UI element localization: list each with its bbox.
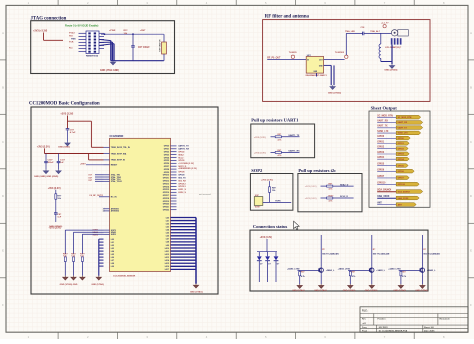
- svg-text:Rst: Rst: [69, 47, 73, 50]
- svg-text:TOP5: TOP5: [275, 201, 281, 203]
- svg-text:LG17: LG17: [165, 269, 170, 271]
- i2c pullup box: [298, 174, 362, 212]
- svg-text:UART1_RX: UART1_RX: [178, 148, 189, 151]
- svg-text:LG13: LG13: [165, 257, 170, 259]
- svg-text:GPIO6: GPIO6: [377, 169, 385, 171]
- svg-text:GND (GND) GND (GND): GND (GND) GND (GND): [34, 176, 58, 178]
- svg-text:LG14: LG14: [165, 259, 170, 262]
- svg-text:UAB_XXXX: UAB_XXXX: [377, 195, 390, 198]
- ground below C9: [65, 142, 70, 146]
- svg-text:GPIO13: GPIO13: [178, 186, 186, 188]
- svg-text:LG8: LG8: [166, 242, 170, 244]
- svg-text:LG0: LG0: [166, 217, 170, 219]
- svg-text:+RST: +RST: [80, 163, 86, 165]
- svg-text:+3AN3_L: +3AN3_L: [376, 269, 385, 272]
- svg-text:GPIO10: GPIO10: [163, 175, 170, 177]
- svg-text:GPIO0: GPIO0: [377, 136, 385, 138]
- ground right bus: [193, 284, 198, 288]
- svg-text:E: E: [470, 249, 472, 253]
- svg-text:RESET: RESET: [111, 165, 118, 167]
- svg-text:LG7: LG7: [166, 239, 170, 241]
- svg-text:Freq:: Freq:: [362, 327, 367, 329]
- svg-text:+L1_Y?: +L1_Y?: [381, 22, 389, 24]
- filter U6 bottom pins to ground: [324, 64, 332, 66]
- svg-text:CC1200MOD: CC1200MOD: [110, 136, 124, 138]
- svg-text:GPIO1: GPIO1: [377, 141, 385, 143]
- svg-text:TCK: TCK: [69, 42, 74, 44]
- svg-text:+3.3VSNS (3.3V): +3.3VSNS (3.3V): [178, 163, 194, 165]
- svg-text:GPIO4: GPIO4: [164, 156, 170, 159]
- svg-text:+3V3 (3.3V): +3V3 (3.3V): [60, 113, 73, 116]
- svg-text:GND (1/TAG): GND (1/TAG): [365, 289, 378, 292]
- svg-text:LG10: LG10: [165, 248, 170, 250]
- antenna connector P1: [391, 30, 397, 36]
- svg-text:ANT/DE2: ANT/DE2: [111, 210, 119, 213]
- svg-text:GPIO9: GPIO9: [178, 175, 185, 177]
- svg-text:GPIO5: GPIO5: [398, 165, 405, 167]
- wire +3V3 to connector (dark red): [43, 33, 45, 41]
- svg-text:GPIO12: GPIO12: [163, 181, 170, 183]
- svg-text:GPIO2: GPIO2: [377, 147, 385, 149]
- svg-text:LG9: LG9: [166, 245, 170, 247]
- svg-text:GND (1/TAG): GND (1/TAG): [292, 289, 305, 292]
- svg-text:RF_P0_OUT: RF_P0_OUT: [267, 57, 281, 59]
- svg-text:GND (1/TAG): GND (1/TAG): [393, 289, 406, 292]
- svg-text:TRUE_IN RF_IN: TRUE_IN RF_IN: [111, 160, 126, 162]
- LED at x=267.6: [267, 252, 269, 257]
- capacitor C10: [45, 154, 47, 162]
- svg-text:LG1: LG1: [166, 220, 170, 222]
- svg-text:GPIO6: GPIO6: [164, 163, 170, 165]
- svg-text:4.7uF: 4.7uF: [70, 131, 76, 134]
- resistor R8: [269, 181, 271, 187]
- crystal wires XTAL: [95, 174, 104, 176]
- svg-text:TMA_AL?: TMA_AL?: [370, 30, 380, 33]
- svg-text:TL/MOD: TL/MOD: [289, 52, 297, 54]
- svg-text:LG6: LG6: [166, 236, 170, 238]
- LED power rail: [266, 239, 268, 252]
- svg-text:TDI: TDI: [69, 36, 73, 38]
- svg-text:LG15: LG15: [165, 263, 170, 265]
- svg-text:LG4: LG4: [166, 229, 170, 232]
- svg-text:TVR VREF#R: TVR VREF#R: [159, 39, 161, 52]
- svg-text:GPIO7: GPIO7: [164, 166, 170, 168]
- svg-text:U.FL-R-SMT(01)?: U.FL-R-SMT(01)?: [385, 47, 402, 49]
- LED at x=259.3: [258, 252, 260, 257]
- svg-text:SC_MOD_RTN: SC_MOD_RTN: [377, 115, 393, 117]
- ground GND (JTAG): [110, 61, 115, 65]
- wire top rail: [101, 33, 164, 35]
- svg-text:B: B: [2, 85, 4, 89]
- svg-text:LG11: LG11: [165, 251, 169, 253]
- JTAG section box: [31, 21, 175, 74]
- svg-text:L00: L00: [111, 239, 114, 241]
- svg-text:100nF: 100nF: [48, 162, 55, 164]
- svg-text:D?: D?: [277, 264, 279, 266]
- svg-text:S06_TX: S06_TX: [178, 178, 186, 180]
- LED section box: [250, 230, 428, 291]
- svg-text:TRUE_IN RX_TRL_IN: TRUE_IN RX_TRL_IN: [111, 147, 131, 149]
- svg-text:GND (2/TAG): GND (2/TAG): [384, 69, 397, 72]
- wire SOP2 out: [263, 201, 291, 203]
- svg-text:GPIO11: GPIO11: [163, 178, 169, 180]
- svg-text:GPIO4: GPIO4: [377, 156, 385, 159]
- svg-text:L07: L07: [111, 260, 114, 262]
- wire inductor to ground: [381, 61, 392, 63]
- left comb bus to lower-left pins: [99, 238, 104, 240]
- svg-text:+3V3 (+3.3V): +3V3 (+3.3V): [33, 30, 47, 33]
- svg-text:LG16: LG16: [165, 266, 170, 268]
- svg-text:GPIO15: GPIO15: [163, 189, 170, 191]
- svg-text:SCL2_D: SCL2_D: [340, 196, 348, 198]
- svg-text:WXX?: WXX?: [255, 207, 261, 209]
- svg-text:GND (JTAG GND): GND (JTAG GND): [100, 69, 119, 72]
- svg-text:+3V3 (3.3V): +3V3 (3.3V): [254, 137, 266, 139]
- svg-text:TL/MOD2: TL/MOD2: [335, 52, 345, 54]
- svg-text:XTAL_TOU2: XTAL_TOU2: [111, 180, 122, 183]
- svg-text:GPIO19: GPIO19: [163, 201, 170, 203]
- svg-text:C: C: [470, 140, 472, 144]
- svg-text:C: C: [2, 140, 4, 144]
- svg-text:GND (1/TAG): GND (1/TAG): [415, 289, 428, 292]
- svg-text:UART1_RX: UART1_RX: [289, 150, 301, 153]
- svg-text:GPIO10: GPIO10: [398, 184, 406, 186]
- svg-text:SCA_DAXXX: SCA_DAXXX: [377, 189, 391, 192]
- svg-text:GPIO7: GPIO7: [398, 178, 405, 180]
- capacitor C9 4.7uF: [66, 129, 70, 130]
- grounds below C10 C11: [43, 169, 48, 173]
- svg-text:D: D: [470, 194, 472, 198]
- svg-text:SJSD_LTX: SJSD_LTX: [398, 133, 409, 135]
- svg-text:RC_IN: RC_IN: [111, 197, 117, 199]
- svg-text:GND (1/TAG): GND (1/TAG): [91, 283, 104, 286]
- svg-text:SDA2: SDA2: [178, 153, 184, 156]
- svg-text:L09: L09: [111, 266, 114, 268]
- capacitor C8: [54, 213, 58, 214]
- svg-text:GPIO14: GPIO14: [163, 185, 170, 188]
- svg-text:A: A: [470, 31, 472, 35]
- svg-text:+3V3 (2/3V): +3V3 (2/3V): [49, 227, 62, 229]
- svg-text:L08: L08: [111, 263, 114, 265]
- ground antenna: [389, 64, 394, 68]
- svg-text:GPIO2: GPIO2: [178, 152, 185, 154]
- svg-text:SC_MOD_RTN: SC_MOD_RTN: [398, 117, 412, 119]
- inductor L1: [380, 33, 382, 44]
- svg-text:ANT: ANT: [377, 202, 382, 205]
- svg-text:B: B: [470, 85, 472, 89]
- svg-text:GND (1/TAG) GND: GND (1/TAG) GND: [60, 283, 78, 286]
- svg-text:UART_TX: UART_TX: [377, 125, 388, 128]
- svg-text:C6? 100nF: C6? 100nF: [138, 47, 150, 49]
- mouse cursor icon: [294, 221, 300, 229]
- svg-text:+3V3 (3.3V): +3V3 (3.3V): [305, 198, 317, 200]
- connector J1 left pin stubs: [79, 32, 87, 34]
- svg-text:GPIO2: GPIO2: [398, 148, 405, 150]
- svg-text:RESET/Vdd: RESET/Vdd: [86, 56, 99, 58]
- svg-text:Date: 20XX: Date: 20XX: [424, 330, 435, 333]
- svg-text:L03: L03: [111, 248, 114, 250]
- svg-text:GPIO12: GPIO12: [178, 183, 186, 185]
- power wire second rail: [44, 148, 46, 153]
- svg-text:LG12: LG12: [165, 254, 170, 256]
- svg-text:L06: L06: [111, 257, 114, 259]
- svg-text:+3V3 (3.3V): +3V3 (3.3V): [254, 152, 266, 154]
- svg-text:GPIO8: GPIO8: [164, 169, 170, 171]
- svg-text:GPIO4: GPIO4: [398, 158, 405, 161]
- svg-text:D?: D?: [260, 264, 262, 266]
- CC1200MOD section box: [31, 107, 218, 294]
- svg-text:FILE:: FILE:: [362, 310, 368, 312]
- svg-text:Connection status: Connection status: [253, 224, 288, 229]
- svg-text:GPIO5: GPIO5: [164, 160, 170, 162]
- svg-text:Sheet: 2/4: Sheet: 2/4: [424, 326, 434, 329]
- no-connect marks ANT pins: [103, 208, 105, 212]
- svg-text:SCA_DAXXX: SCA_DAXXX: [398, 190, 411, 193]
- svg-text:S06 TY.LGANLIAN: S06 TY.LGANLIAN: [373, 253, 390, 256]
- svg-text:GPIO3: GPIO3: [377, 152, 385, 154]
- svg-text:GPIO7: GPIO7: [377, 176, 385, 178]
- svg-text:ID: CC1200MOD-SENIOR-PCB: ID: CC1200MOD-SENIOR-PCB: [379, 331, 408, 333]
- svg-text:SJSD_LTX: SJSD_LTX: [377, 131, 389, 133]
- svg-text:GND (1/TAG): GND (1/TAG): [314, 289, 327, 292]
- wire bundle from connector to GND: [99, 39, 111, 40]
- svg-text:D: D: [2, 194, 4, 198]
- svg-text:Pull up resistors i2c: Pull up resistors i2c: [298, 168, 336, 173]
- svg-text:Route 5 (+5V IO/JD Enable): Route 5 (+5V IO/JD Enable): [65, 24, 99, 28]
- antenna connector shield pins: [391, 38, 393, 44]
- svg-text:GPIO20: GPIO20: [163, 204, 170, 206]
- svg-text:SUD5: SUD5: [93, 234, 99, 236]
- svg-text:Prod:: Prod:: [362, 331, 368, 333]
- svg-text:UART1_TX: UART1_TX: [289, 134, 300, 137]
- svg-text:SUD5: SUD5: [111, 234, 116, 236]
- junction dot top rail: [104, 33, 106, 35]
- svg-text:GPIO1: GPIO1: [164, 149, 170, 151]
- svg-text:+PWR: +PWR: [109, 30, 116, 32]
- svg-text:GND (1/TAG): GND (1/TAG): [343, 289, 356, 292]
- svg-text:+3V3 (3.3V): +3V3 (3.3V): [261, 180, 273, 182]
- svg-text:TRUE_IN RF_INA: TRUE_IN RF_INA: [111, 152, 127, 155]
- UART1 pullup box: [251, 124, 315, 158]
- svg-text:E: E: [2, 249, 4, 253]
- svg-text:GPIO2: GPIO2: [164, 152, 170, 154]
- connector J1 right pin stubs: [99, 32, 104, 34]
- svg-text:Pull up resistors UART1: Pull up resistors UART1: [251, 118, 299, 123]
- svg-text:TMS: TMS: [71, 39, 76, 41]
- svg-text:LG2: LG2: [166, 223, 170, 225]
- svg-text:GPIO8: GPIO8: [178, 172, 185, 174]
- svg-text:GPIO10: GPIO10: [377, 182, 386, 184]
- svg-text:TMA_LED: TMA_LED: [345, 30, 355, 33]
- svg-text:+3V3 (3.3V): +3V3 (3.3V): [305, 186, 317, 188]
- resistor R7 pullup: [55, 190, 57, 194]
- capacitor C11: [58, 154, 60, 162]
- resistor R4 vertical (yellow body): [163, 34, 165, 42]
- svg-text:Rinnotech: Rinnotech: [440, 317, 451, 320]
- svg-text:GPIO5: GPIO5: [178, 160, 185, 162]
- svg-text:+RST: +RST: [140, 30, 146, 32]
- svg-text:SOP2: SOP2: [251, 168, 263, 173]
- svg-text:anti reserved: anti reserved: [199, 193, 212, 196]
- svg-text:LG5: LG5: [166, 233, 170, 235]
- svg-text:GPIO16: GPIO16: [163, 192, 170, 194]
- svg-text:GND (1/TAG): GND (1/TAG): [190, 291, 203, 294]
- wire RF input: [267, 59, 306, 61]
- svg-text:+3AN3_L: +3AN3_L: [326, 269, 335, 272]
- svg-text:L05: L05: [111, 254, 114, 256]
- svg-text:GPIO0: GPIO0: [164, 146, 170, 148]
- svg-text:UART_RX: UART_RX: [377, 120, 388, 123]
- capacitor C6: [132, 34, 134, 45]
- SOP2 box: [250, 174, 293, 211]
- svg-text:UART_TX: UART_TX: [398, 126, 408, 129]
- svg-text:GND (2/TAG): GND (2/TAG): [328, 91, 341, 94]
- ground under filter: [330, 85, 335, 89]
- svg-text:CC1200MOD Basic Configuration: CC1200MOD Basic Configuration: [29, 102, 100, 107]
- svg-text:+3V3 (3.3V): +3V3 (3.3V): [260, 237, 273, 239]
- svg-text:GPIO18: GPIO18: [163, 198, 170, 200]
- svg-text:LG3: LG3: [166, 226, 170, 228]
- power wire branch to pin1: [68, 120, 92, 122]
- svg-text:GPIO6: GPIO6: [398, 171, 405, 173]
- filter U6 right pin wires: [324, 59, 345, 61]
- svg-text:S06 TY.LGANLIAN: S06 TY.LGANLIAN: [423, 253, 440, 256]
- svg-text:+RESERVED (3.3V): +RESERVED (3.3V): [178, 168, 197, 170]
- svg-text:S06 TY.LGANLIAN: S06 TY.LGANLIAN: [322, 253, 339, 256]
- Sheet Output box: [369, 111, 430, 207]
- svg-text:GPIO9: GPIO9: [164, 172, 170, 174]
- svg-text:GPIO22: GPIO22: [163, 210, 170, 212]
- LED at x=276.0: [275, 252, 277, 257]
- svg-text:RF filter and antenna: RF filter and antenna: [265, 14, 310, 19]
- title block: [360, 307, 468, 332]
- svg-text:GPIO21: GPIO21: [163, 207, 170, 209]
- svg-text:SCL2: SCL2: [178, 157, 184, 159]
- svg-text:Franken: Franken: [378, 317, 387, 320]
- svg-text:GPIO1: GPIO1: [398, 143, 405, 145]
- svg-text:+3AN3_L: +3AN3_L: [427, 269, 436, 272]
- svg-text:L01: L01: [111, 242, 114, 244]
- svg-text:MX-TEXX: MX-TEXX: [379, 327, 389, 329]
- svg-text:S06_RX: S06_RX: [178, 180, 186, 182]
- svg-text:UAB_XXXX: UAB_XXXX: [398, 197, 409, 200]
- svg-text:GPIO17: GPIO17: [163, 195, 170, 197]
- svg-text:GPIO5: GPIO5: [377, 164, 385, 166]
- svg-text:GPIO13: GPIO13: [163, 183, 170, 185]
- RF section box (maroon): [263, 20, 430, 102]
- svg-text:D?: D?: [268, 264, 270, 266]
- svg-text:LED1_S: LED1_S: [178, 189, 186, 191]
- svg-text:L02: L02: [111, 245, 114, 247]
- svg-text:+3V3 (3.3V): +3V3 (3.3V): [48, 187, 61, 190]
- svg-text:+3V3 (3.3V): +3V3 (3.3V): [37, 146, 50, 149]
- power wire +3V3 vertical: [67, 116, 69, 129]
- svg-text:GND (GND): GND (GND): [58, 146, 70, 148]
- svg-text:SDA2_D: SDA2_D: [340, 183, 349, 186]
- svg-text:UART1_TX: UART1_TX: [178, 145, 189, 148]
- svg-text:LED2_S: LED2_S: [178, 192, 186, 194]
- svg-text:GPIO3: GPIO3: [164, 154, 170, 156]
- svg-text:L04: L04: [111, 250, 114, 253]
- svg-text:C9?: C9?: [70, 129, 75, 131]
- svg-text:UART_RX: UART_RX: [398, 121, 408, 124]
- svg-text:A: A: [2, 31, 4, 35]
- svg-text:GPIO3: GPIO3: [398, 154, 405, 156]
- svg-text:TVdd: TVdd: [69, 33, 75, 35]
- svg-text:CC1200MOD-SENIOR: CC1200MOD-SENIOR: [113, 276, 136, 278]
- connector J1 body (2x7 header): [86, 31, 99, 54]
- wire bottom rail: [111, 60, 164, 62]
- svg-text:Sheet Output: Sheet Output: [371, 106, 398, 111]
- svg-text:GPIO0: GPIO0: [398, 138, 405, 140]
